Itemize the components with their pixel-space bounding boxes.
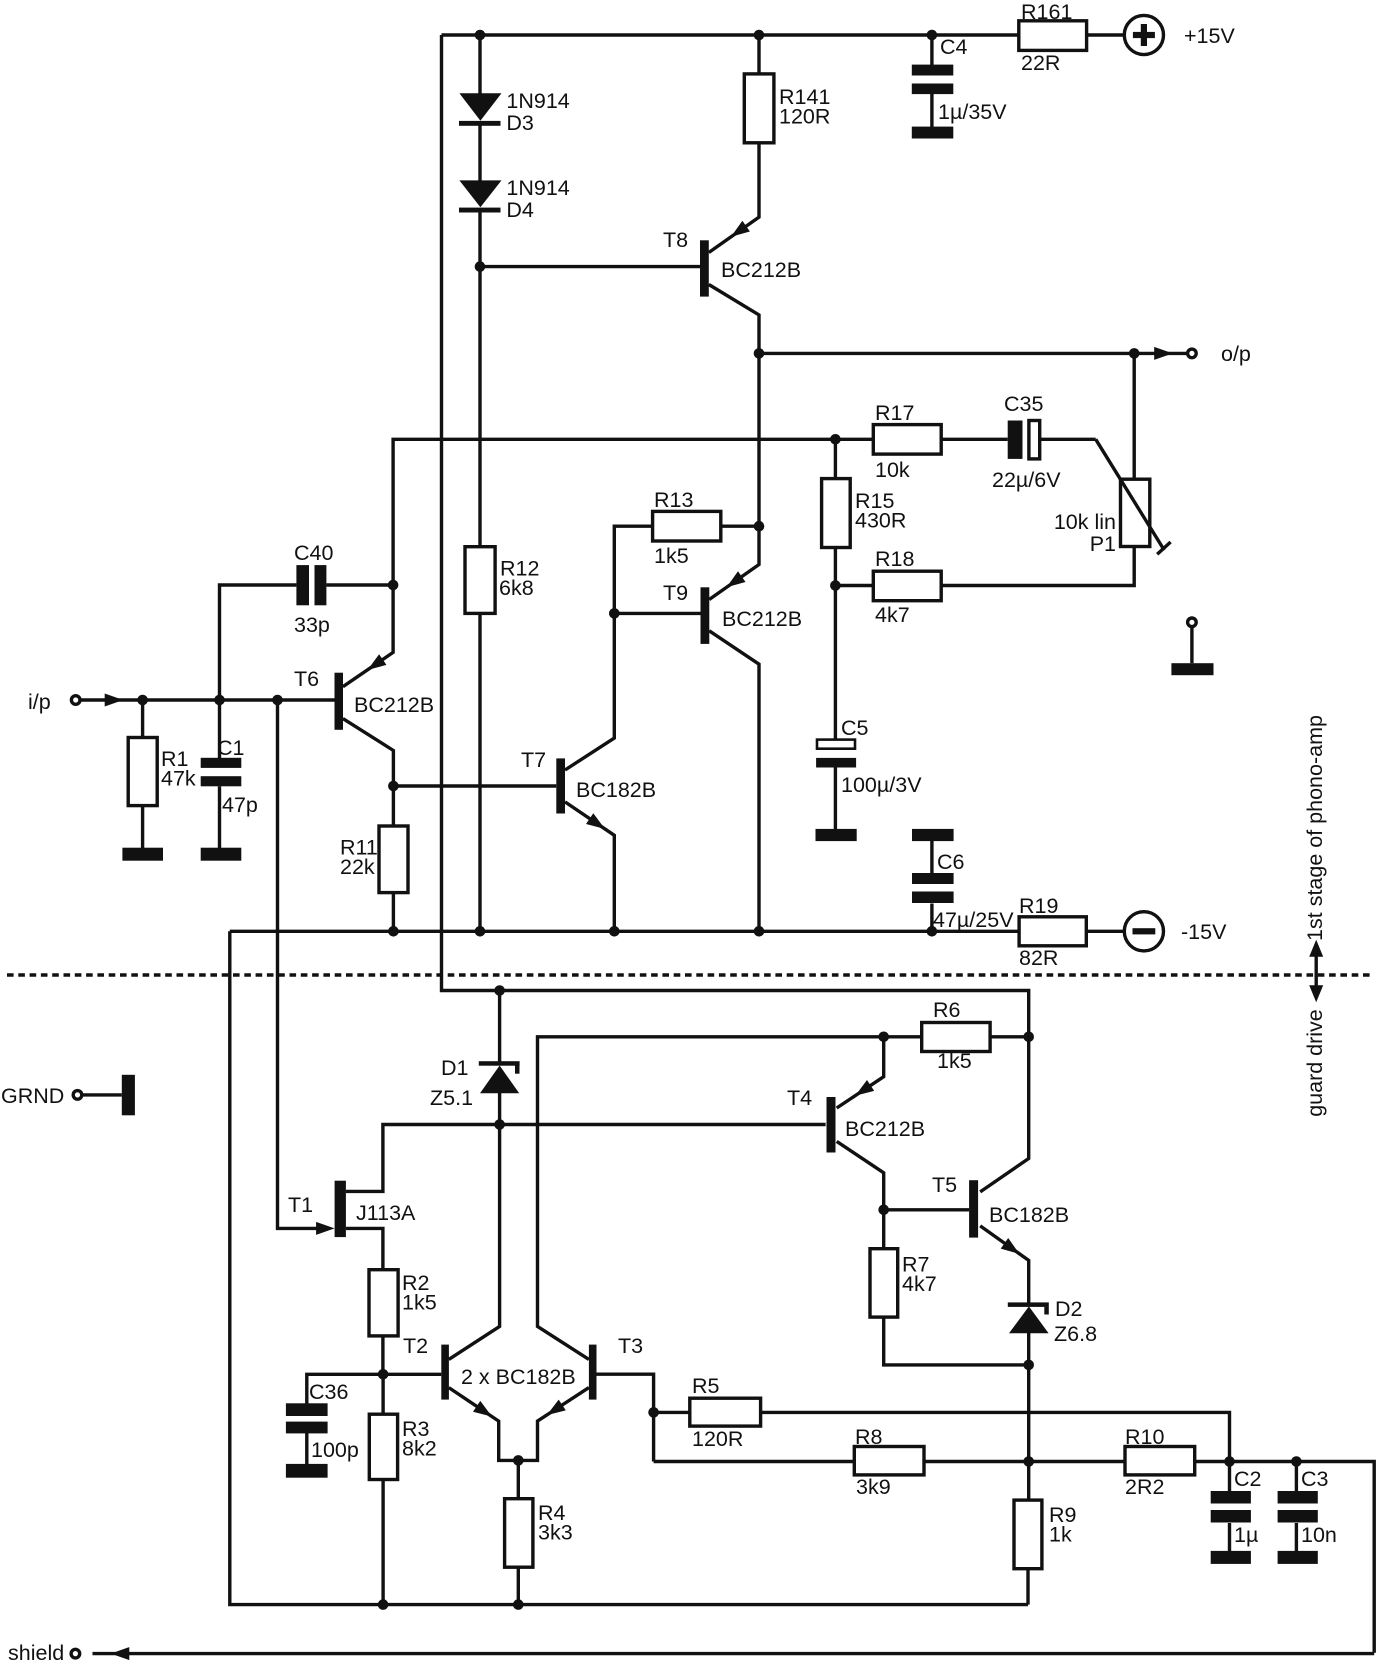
- svg-text:22µ/6V: 22µ/6V: [992, 468, 1061, 492]
- svg-text:BC212B: BC212B: [722, 607, 802, 631]
- svg-text:22k: 22k: [340, 855, 375, 879]
- svg-text:T1: T1: [288, 1193, 313, 1217]
- svg-text:1k: 1k: [1049, 1523, 1072, 1547]
- svg-text:R17: R17: [875, 401, 914, 425]
- svg-text:22R: 22R: [1021, 51, 1060, 75]
- svg-text:6k8: 6k8: [499, 576, 534, 600]
- svg-text:T7: T7: [521, 748, 546, 772]
- svg-text:1µ: 1µ: [1234, 1523, 1258, 1547]
- svg-text:BC212B: BC212B: [845, 1117, 925, 1141]
- svg-text:guard drive: guard drive: [1303, 1009, 1327, 1117]
- svg-text:4k7: 4k7: [902, 1272, 937, 1296]
- svg-text:1µ/35V: 1µ/35V: [938, 100, 1007, 124]
- svg-text:33p: 33p: [294, 613, 330, 637]
- svg-text:T8: T8: [663, 228, 688, 252]
- svg-text:C3: C3: [1301, 1467, 1329, 1491]
- svg-text:47µ/25V: 47µ/25V: [933, 908, 1014, 932]
- svg-text:R8: R8: [855, 1425, 883, 1449]
- svg-text:C6: C6: [937, 850, 965, 874]
- svg-text:BC182B: BC182B: [576, 778, 656, 802]
- svg-text:shield: shield: [8, 1641, 64, 1663]
- svg-text:BC182B: BC182B: [989, 1203, 1069, 1227]
- svg-text:1N914: 1N914: [506, 89, 569, 113]
- svg-text:T2: T2: [403, 1334, 428, 1358]
- svg-text:R18: R18: [875, 547, 914, 571]
- svg-text:D2: D2: [1055, 1297, 1082, 1321]
- svg-text:Z6.8: Z6.8: [1054, 1322, 1097, 1346]
- svg-text:T5: T5: [932, 1173, 957, 1197]
- svg-text:+15V: +15V: [1184, 24, 1235, 48]
- svg-text:120R: 120R: [692, 1427, 743, 1451]
- svg-text:-15V: -15V: [1181, 920, 1227, 944]
- svg-text:C36: C36: [309, 1380, 348, 1404]
- svg-text:82R: 82R: [1019, 946, 1058, 970]
- svg-text:10k: 10k: [875, 458, 910, 482]
- svg-text:1k5: 1k5: [654, 544, 689, 568]
- svg-text:i/p: i/p: [28, 690, 51, 714]
- svg-text:C4: C4: [940, 35, 968, 59]
- svg-text:R6: R6: [933, 998, 961, 1022]
- svg-text:3k9: 3k9: [856, 1475, 891, 1499]
- svg-text:4k7: 4k7: [875, 603, 910, 627]
- svg-text:C1: C1: [217, 736, 244, 760]
- svg-text:47p: 47p: [222, 793, 258, 817]
- svg-text:R19: R19: [1019, 894, 1058, 918]
- svg-text:C2: C2: [1234, 1467, 1261, 1491]
- svg-text:3k3: 3k3: [538, 1521, 573, 1545]
- svg-text:R5: R5: [692, 1374, 720, 1398]
- svg-text:R10: R10: [1125, 1425, 1164, 1449]
- svg-text:47k: 47k: [161, 767, 196, 791]
- svg-text:2 x BC182B: 2 x BC182B: [461, 1365, 576, 1389]
- svg-text:GRND: GRND: [1, 1084, 64, 1108]
- svg-text:T9: T9: [663, 581, 688, 605]
- svg-text:2R2: 2R2: [1125, 1475, 1164, 1499]
- svg-text:o/p: o/p: [1221, 342, 1251, 366]
- svg-text:P1: P1: [1090, 532, 1116, 556]
- svg-text:T6: T6: [294, 667, 319, 691]
- svg-text:BC212B: BC212B: [354, 693, 434, 717]
- svg-text:120R: 120R: [779, 105, 830, 129]
- svg-text:1k5: 1k5: [937, 1049, 972, 1073]
- svg-text:T4: T4: [787, 1086, 812, 1110]
- svg-text:100p: 100p: [311, 1438, 359, 1462]
- svg-text:10n: 10n: [1301, 1523, 1337, 1547]
- svg-text:8k2: 8k2: [402, 1437, 437, 1461]
- svg-text:D4: D4: [506, 198, 534, 222]
- svg-text:Z5.1: Z5.1: [430, 1086, 473, 1110]
- svg-text:430R: 430R: [855, 509, 906, 533]
- svg-text:R161: R161: [1021, 0, 1072, 24]
- svg-text:D1: D1: [441, 1056, 468, 1080]
- svg-text:10k lin: 10k lin: [1054, 510, 1116, 534]
- svg-text:T3: T3: [618, 1334, 643, 1358]
- svg-text:1N914: 1N914: [506, 176, 569, 200]
- svg-text:R13: R13: [654, 488, 693, 512]
- svg-text:D3: D3: [506, 111, 534, 135]
- svg-text:100µ/3V: 100µ/3V: [841, 773, 922, 797]
- svg-text:BC212B: BC212B: [721, 258, 801, 282]
- svg-text:J113A: J113A: [356, 1201, 416, 1225]
- svg-text:C5: C5: [841, 716, 869, 740]
- svg-text:1st stage of phono-amp: 1st stage of phono-amp: [1303, 715, 1327, 941]
- svg-text:1k5: 1k5: [402, 1291, 437, 1315]
- svg-text:C40: C40: [294, 541, 333, 565]
- svg-text:C35: C35: [1004, 392, 1043, 416]
